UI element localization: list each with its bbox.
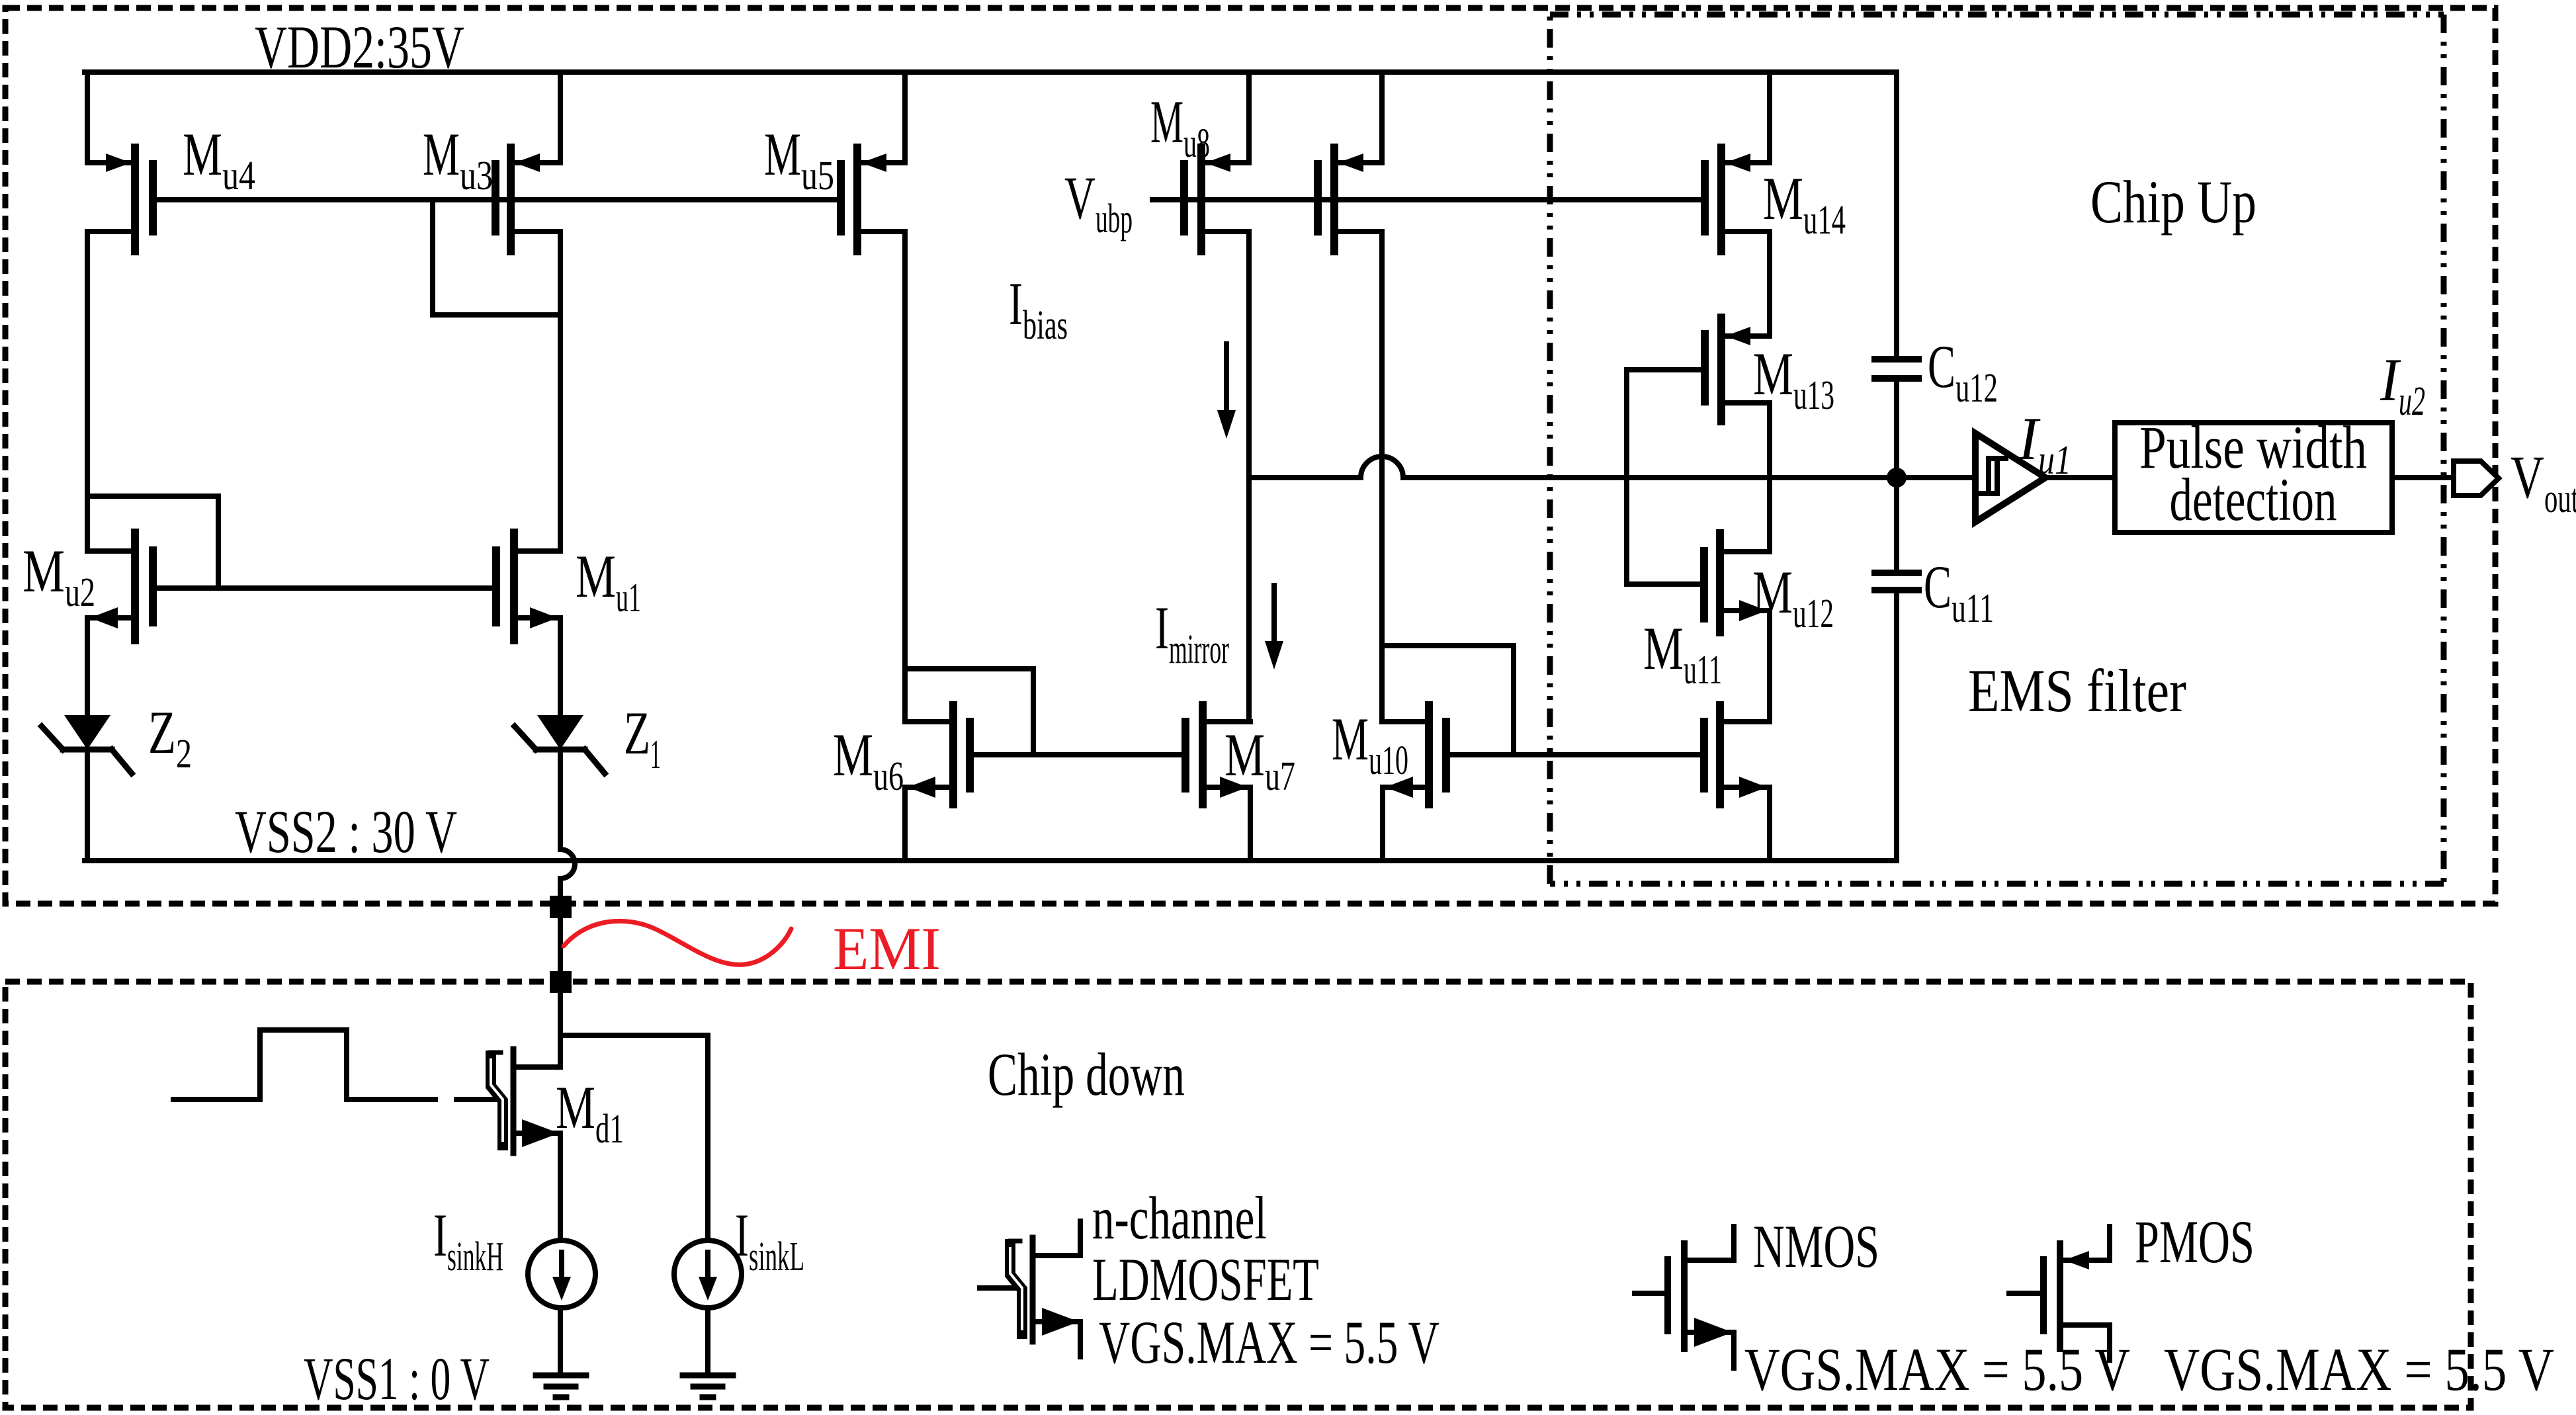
- wire: column x=2675 (Mu13 drain through node line to Mu12 drain): [1767, 403, 1772, 552]
- transistor Mu10 (NMOS): [1425, 705, 1433, 804]
- wire: node line y=722 (hop to Schmitt input): [1403, 475, 1973, 480]
- EMI noise squiggle: [564, 921, 791, 965]
- wire: left column x=132 (Mu2 source to Z2): [85, 618, 90, 715]
- svg-text:LDMOSFET: LDMOSFET: [1092, 1246, 1319, 1313]
- legend PMOS symbol: [2009, 1291, 2043, 1296]
- legend n-channel LDMOSFET symbol: [980, 1285, 1014, 1291]
- transistor Mu4 (PMOS): [131, 148, 139, 251]
- wire: Schmitt output to Pulse width detection box: [2045, 475, 2115, 480]
- svg-text:VGS.MAX = 5.5 V: VGS.MAX = 5.5 V: [1744, 1336, 2130, 1403]
- transistor Mu12 (NMOS): [1716, 533, 1724, 632]
- wire: left column x=132 top (rail to Mu4 source): [85, 72, 90, 163]
- svg-text:VSS2 : 30 V: VSS2 : 30 V: [235, 798, 457, 865]
- capacitor Cu11: [1875, 573, 1918, 590]
- wire hop over x=2089 on node line: [1361, 456, 1403, 478]
- transistor Mu7 (NMOS): [1199, 705, 1207, 804]
- wire: Mu2/Mu1 gate line: [153, 585, 496, 591]
- wire: column x=1888 (Mu7 source to rail): [1248, 787, 1253, 861]
- wire: right column x=2867 (rail to Cu12 top): [1894, 72, 1899, 359]
- transistor Mu14 (PMOS): [1717, 148, 1725, 251]
- Pulse width detection box: [2115, 423, 2392, 533]
- wire: column x=1368 (Mu6 source to rail): [902, 787, 908, 861]
- transistor Mu6 (NMOS): [949, 705, 957, 804]
- wire: left column x=132 (Mu4 drain to Mu2 drain): [85, 232, 90, 551]
- wire: column x=1368 (Mu5 drain to Mu6 drain): [902, 232, 908, 722]
- transistor Md1 (LDMOSFET) gate lead: [456, 1097, 495, 1102]
- wire: right column x=2867 (Cu11 bottom to VSS2 rail): [1894, 590, 1899, 861]
- svg-text:n-channel: n-channel: [1092, 1184, 1267, 1252]
- wire: comparison node line y=722 (Mu8 drain to hop): [1249, 475, 1361, 480]
- transistor Mu8 (PMOS): [1197, 148, 1205, 251]
- wire: column x=847 (Mu3 drain to Mu1 drain): [558, 232, 563, 551]
- ground symbol under IsinkL: [683, 1375, 733, 1397]
- wire: Mu10/Mu11 gate line: [1446, 752, 1705, 757]
- Chip down dashed boundary box: [5, 982, 2471, 1408]
- svg-text:VSS1 : 0 V: VSS1 : 0 V: [304, 1345, 490, 1412]
- wire: column x=1888 (Mu8 drain to Mu7 drain, node branch at y=722): [1246, 232, 1252, 722]
- wire: Mu3 diode tie (gate line down to drain): [433, 200, 560, 315]
- wire: right column x=2867 (Cu12 bottom to Cu11 top through node): [1894, 378, 1899, 573]
- wire: column x=847 (Z1 down to hop over VSS2 rail): [558, 750, 563, 849]
- wire: column x=2089 (rail to PMOS source): [1379, 72, 1385, 163]
- zener diode Z2: [64, 715, 110, 750]
- current source IsinkL: [674, 1240, 742, 1308]
- transistor Md1 channel and stubs: [511, 1049, 517, 1153]
- Imirror current arrow: [1271, 585, 1277, 643]
- wire: column x=2675 (Mu11 source to rail): [1767, 787, 1772, 861]
- wire: column x=2675 (Mu14 drain to Mu13 source): [1767, 232, 1772, 336]
- svg-text:Chip down: Chip down: [988, 1041, 1185, 1108]
- transistor Mu1 (NMOS): [510, 533, 518, 640]
- wire: column x=1888 (rail to Mu8 source): [1246, 72, 1252, 163]
- svg-text:Chip Up: Chip Up: [2090, 168, 2256, 236]
- svg-text:EMS filter: EMS filter: [1968, 657, 2186, 724]
- wire: left column x=132 (Z2 to VSS2 rail): [85, 750, 90, 861]
- wire: branch to IsinkL from x=847 node: [560, 1035, 708, 1240]
- wire: column x=1368 (rail to Mu5 source): [902, 72, 908, 163]
- svg-text:detection: detection: [2170, 466, 2337, 533]
- zener diode Z1: [537, 715, 583, 750]
- wire: PMOS gate line (Mu4,Mu3,Mu5): [153, 197, 841, 202]
- wire: column x=847 (rail to Mu3 source): [558, 72, 563, 163]
- node junction dot at x=2867 on node line: [1887, 468, 1907, 488]
- svg-text:VGS.MAX = 5.5 V: VGS.MAX = 5.5 V: [2164, 1336, 2554, 1403]
- wire: column x=847 (hop down into chip-down, to Md1 drain): [558, 879, 563, 1067]
- wire: jog from x=2089 to Mu10/Mu11 gate line: [1382, 646, 1514, 755]
- wire: Mu2 diode tie: [87, 496, 218, 588]
- wire: column x=2090 (Mu10 source to rail): [1380, 787, 1385, 861]
- wire: Md1 source down to IsinkH: [558, 1133, 563, 1240]
- wire: Mu6 diode tie (drain to gate line): [905, 669, 1033, 755]
- wire: Vubp gate line (Mu8, PMOS, Mu14): [1152, 197, 1705, 202]
- current source IsinkH: [528, 1240, 595, 1308]
- transistor Mu2 (NMOS): [131, 533, 139, 640]
- node square where wire crosses Chip Up border: [550, 896, 572, 918]
- Vout port symbol: [2454, 461, 2499, 495]
- wire: Mu13/Mu12 gate tie: [1627, 370, 1704, 584]
- wire hop over VSS2 rail at x=847: [560, 849, 575, 879]
- wire: Mu6/Mu7 gate line: [970, 752, 1185, 757]
- transistor Mu3 (PMOS): [507, 148, 515, 251]
- capacitor Cu12: [1875, 359, 1918, 378]
- transistor Md1 stepped gate electrode: [491, 1056, 503, 1145]
- svg-text:EMI: EMI: [833, 915, 941, 982]
- svg-text:VDD2:35V: VDD2:35V: [255, 13, 464, 81]
- legend NMOS symbol: [1635, 1291, 1668, 1296]
- VSS2 rail: [85, 858, 1897, 863]
- wire: IsinkH to ground: [558, 1308, 563, 1375]
- svg-text:VGS.MAX = 5.5 V: VGS.MAX = 5.5 V: [1099, 1308, 1439, 1376]
- wire: column x=847 (Mu1 source to Z1): [558, 618, 563, 715]
- svg-text:PMOS: PMOS: [2135, 1208, 2254, 1275]
- node square where wire crosses Chip down border: [550, 971, 572, 993]
- wire: column x=2089 (PMOS drain down to Mu10 drain): [1379, 232, 1385, 722]
- transistor PMOS (unnamed, right of Mu8): [1330, 148, 1338, 251]
- EMS filter dash-dot boundary box: [1550, 12, 2444, 18]
- wire: IsinkL to ground: [705, 1308, 710, 1375]
- svg-text:NMOS: NMOS: [1753, 1213, 1879, 1280]
- Schmitt trigger buffer Iu1: [1975, 433, 2045, 522]
- Ibias current arrow: [1224, 344, 1229, 413]
- transistor Mu11 (NMOS): [1716, 705, 1724, 804]
- wire: column x=2675 (rail to Mu14 source): [1767, 72, 1772, 163]
- pulse waveform at Md1 gate: [173, 1030, 435, 1099]
- wire: column x=2675 (Mu12 source to Mu11 drain): [1767, 611, 1772, 722]
- Chip Up dashed boundary box: [5, 8, 2495, 904]
- transistor Mu13 (PMOS): [1717, 318, 1725, 421]
- ground symbol under IsinkH: [536, 1375, 586, 1397]
- VDD2 rail: [85, 69, 1897, 75]
- transistor Mu5 (PMOS): [853, 148, 861, 251]
- wire: box output to Vout port: [2392, 475, 2454, 480]
